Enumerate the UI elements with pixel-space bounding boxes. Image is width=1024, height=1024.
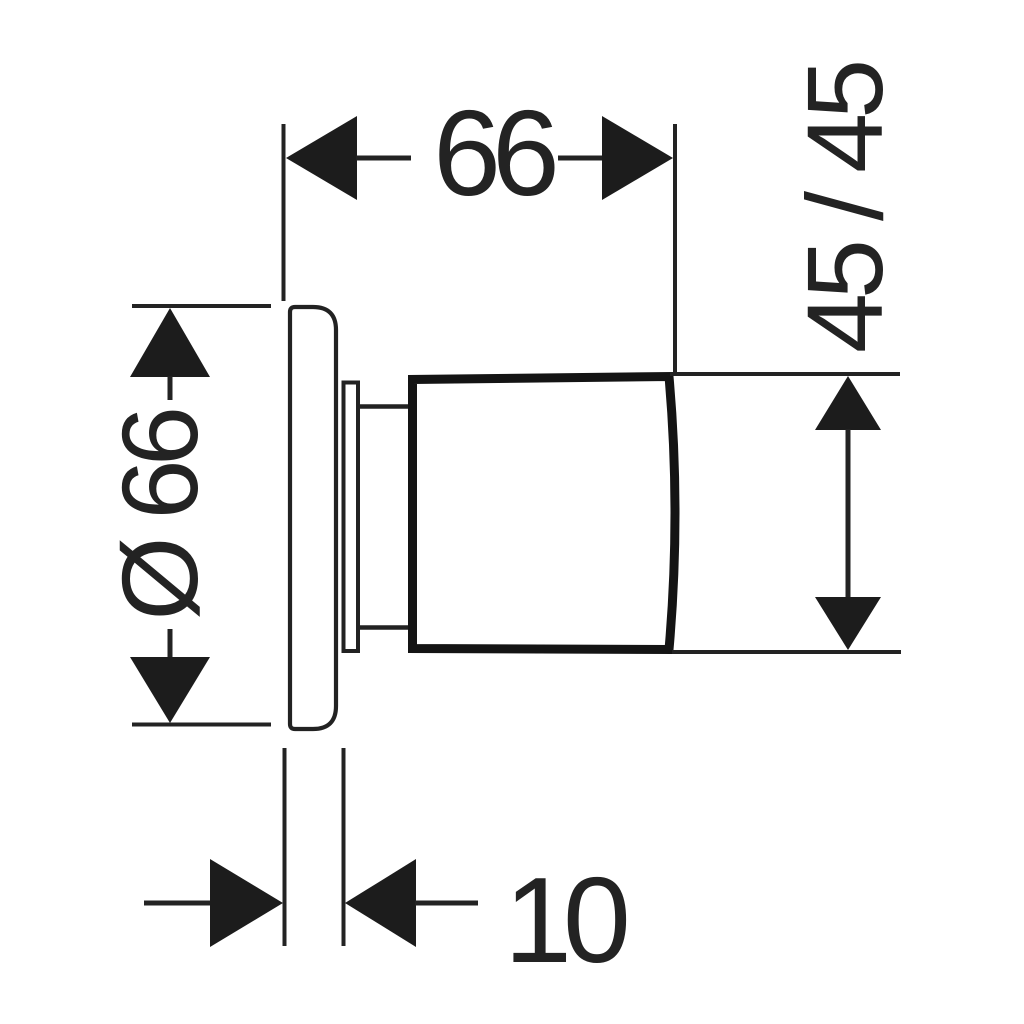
dimension D66: bottom extension line	[132, 723, 271, 727]
dimension 10: right extension line	[342, 748, 346, 946]
dimension 10: right arrowhead	[345, 859, 416, 947]
flange ring behind knob	[344, 383, 359, 652]
escutcheon plate (side view)	[290, 307, 336, 729]
dimension 45/45: bottom extension line	[672, 650, 901, 654]
dimension 10: right lead line	[415, 901, 478, 906]
dimension D66: lower stub line	[168, 629, 173, 658]
dimension 66: left arrowhead	[286, 116, 357, 200]
dimension 66: left stub line	[356, 156, 411, 161]
dimension 45/45: top extension line	[670, 372, 900, 376]
dimension 66: left extension line	[282, 124, 286, 301]
dimension D66: down arrowhead	[130, 657, 210, 723]
dimension 45/45: dimension line	[846, 429, 851, 598]
svg-text:66: 66	[433, 85, 555, 221]
dimension D66: up arrowhead	[130, 308, 210, 377]
dimension 10: left extension line	[283, 748, 287, 946]
dimension 10: left arrowhead	[210, 859, 283, 947]
svg-text:Ø 66: Ø 66	[99, 410, 220, 621]
svg-text:45 / 45: 45 / 45	[784, 63, 905, 353]
svg-text:10: 10	[504, 852, 627, 988]
dimension 10: left lead line	[144, 901, 211, 906]
dimension D66: top extension line	[132, 304, 271, 308]
dimension D66: upper stub line	[168, 376, 173, 400]
knob (thick outline, convex front face)	[413, 377, 676, 650]
neck lower line	[357, 625, 414, 630]
neck upper line	[357, 404, 414, 409]
dimension 66: right arrowhead	[602, 116, 673, 200]
dimension 66: right extension line	[673, 124, 677, 374]
dimension 45/45: up arrowhead	[815, 376, 881, 430]
dimension 45/45: down arrowhead	[815, 597, 881, 650]
dimension 66: right stub line	[558, 156, 604, 161]
